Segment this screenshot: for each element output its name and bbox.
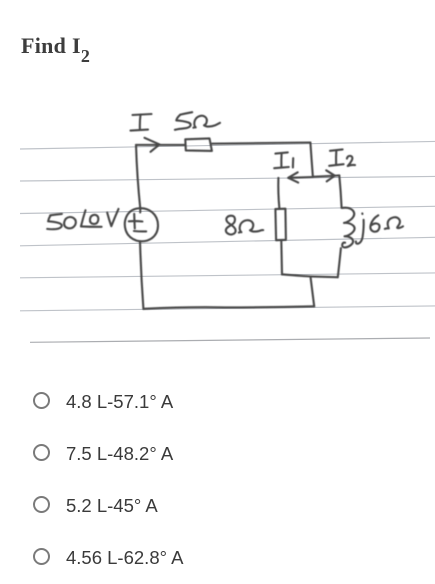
resistor R2 8 ohm (vertical box) (275, 209, 286, 241)
plus sign inside V1 (129, 214, 143, 229)
ruled line 3 (20, 206, 435, 213)
label angle 0 (phase) (81, 210, 102, 227)
wire left vertical from node TL down to source V1 (136, 145, 140, 213)
label 5 (5 ohm value) (175, 112, 192, 130)
minus sign inside V1 (134, 230, 146, 233)
wire below R2 (280, 240, 283, 274)
label I2 (329, 149, 355, 166)
wire below L1 to bottom (338, 248, 341, 277)
wire riser bottom right (311, 278, 315, 307)
resistor R1 5 ohm (box on top wire) (185, 138, 212, 151)
wire bottom from node BL to node BR (143, 306, 314, 309)
label omega (j6 ohm) (385, 217, 403, 229)
wire from V1 bottom down to node BL (140, 241, 143, 308)
ruled line 2 (20, 176, 435, 181)
ruled line 1 (20, 141, 435, 149)
ruled line 4 (20, 237, 435, 246)
label 8 (8 ohm value) (226, 216, 236, 235)
arrow I1 (left branch current) (288, 172, 313, 182)
label 6 (j6 ohm) (370, 215, 379, 231)
wire from node M right to inductor L1 (339, 175, 341, 207)
wire from node M down to resistor R2 (278, 178, 279, 209)
label j (j6 ohm) (356, 213, 364, 243)
inductor L1 j6 ohm (coil) (342, 208, 355, 248)
wire central vertical from node T down to node M (310, 143, 312, 176)
label omega (5 ohm) (193, 116, 220, 128)
label 50 (source value) (47, 214, 76, 229)
wire top right of R1 to node T (212, 143, 310, 144)
voltage source V1 circle (125, 208, 158, 241)
label I1 (274, 152, 293, 168)
label I (source current) (131, 114, 152, 131)
arrow I2 (right branch current) (313, 170, 340, 181)
ruled line 5 (20, 273, 435, 278)
label omega (8 ohm) (239, 220, 263, 232)
wire top from node TL to resistor R1 (136, 144, 185, 146)
ruled line 7 (30, 338, 430, 342)
current arrow I on top wire (145, 138, 160, 152)
label V (volts) (107, 209, 118, 226)
ruled line 6 (20, 306, 435, 311)
wire bottom of parallel branches (282, 274, 337, 277)
